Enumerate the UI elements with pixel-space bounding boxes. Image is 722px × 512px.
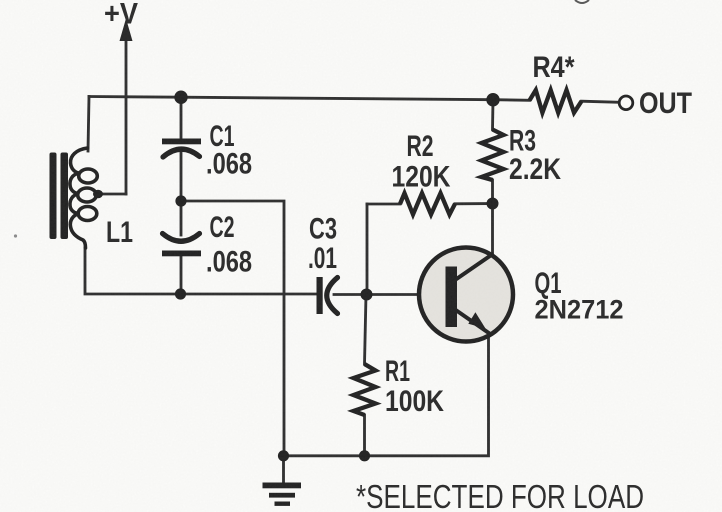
node rail/R3 junction [486,93,499,106]
node ground junction [278,450,289,461]
L1 tap blob [93,190,103,199]
wire top rail [89,97,530,101]
wire R3 bottom lead [491,180,494,200]
L1 coil loop 1 [79,169,98,183]
wire R2 left lead [367,203,400,206]
wire R3 top lead [491,100,494,130]
L1 coil loop 2 [78,188,97,202]
emitter stroke [455,310,490,334]
inductor L1 coil [70,148,88,248]
node R1 bottom junction [359,450,370,461]
artifact speck [14,234,17,237]
wire rail to OUT [582,101,620,102]
L1 coil loop 3 [78,207,97,221]
wire base node up to R2 [366,204,369,295]
inductor L1 core bars [50,153,69,240]
wire R1 top lead [365,295,367,365]
wire collector lead [491,205,494,257]
wire L1 bottom lead and tank bottom line [85,248,317,294]
wire R2 right lead [455,202,488,205]
ground [263,483,302,506]
+V arrow [120,19,133,42]
scan grain [0,0,1,1]
node R2/R3 junction [487,198,499,210]
wire C2 bottom lead [180,256,183,294]
node C2 bottom junction [175,288,186,299]
artifact top arc [575,0,589,3]
resistor R4 [530,90,582,113]
node base junction [361,289,373,301]
capacitor C3 [317,277,338,314]
resistor R2 [400,193,455,214]
resistor R3 [482,130,504,181]
wire C1 bottom lead [180,152,183,201]
wire C3 right lead to base node [334,293,367,296]
capacitor C1 [162,139,201,158]
capacitor C2 [162,234,201,257]
wire base lead [367,293,446,296]
emitter arrow [468,312,485,328]
wire C2 top lead [180,201,183,235]
node C1/C2 junction [175,195,186,206]
transistor Q1 [419,248,513,342]
terminal OUT [619,96,633,110]
resistor R1 [354,364,376,415]
wire C1 top lead [180,97,183,139]
wire R1 bottom lead [363,415,366,456]
wire +V vertical [125,38,128,194]
node rail/C1 junction [174,91,187,104]
wire ground stub [282,456,285,483]
wire emitter lead and bottom rail [284,335,489,456]
wire left drop to L1 [88,97,89,152]
collector stroke [455,254,494,281]
wire C1/C2 junction to ground column [181,201,284,456]
wire L1 tap segment [99,193,126,196]
